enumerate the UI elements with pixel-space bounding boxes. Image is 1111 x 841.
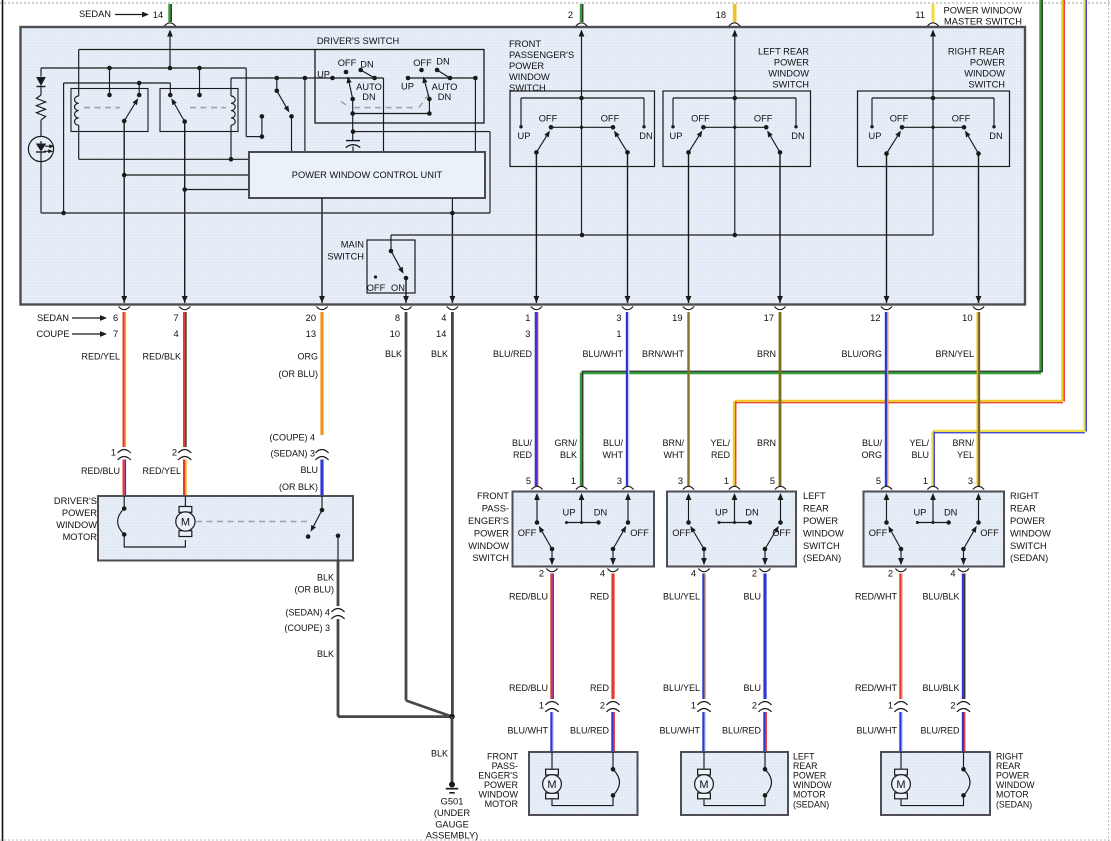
- relay K1 arm: [122, 119, 127, 124]
- svg-text:DRIVER'S SWITCH: DRIVER'S SWITCH: [317, 36, 399, 46]
- switch left arm: [702, 547, 707, 552]
- wire arm common to capacitor: [352, 114, 354, 141]
- svg-text:GRN/: GRN/: [555, 438, 578, 448]
- cluster left arm: [534, 150, 539, 155]
- connector pin 2: [576, 23, 587, 26]
- svg-text:YEL/: YEL/: [710, 438, 730, 448]
- svg-text:PASS-: PASS-: [492, 761, 518, 771]
- cluster box: [663, 91, 811, 167]
- feed rail y235: [391, 234, 933, 236]
- relay K1 mechanical link: [84, 107, 120, 109]
- svg-text:RIGHT REAR: RIGHT REAR: [948, 47, 1005, 57]
- svg-text:OFF: OFF: [539, 114, 558, 124]
- relay K1 contact a: [109, 68, 111, 95]
- svg-text:POWER: POWER: [474, 528, 509, 538]
- svg-text:YEL: YEL: [957, 450, 974, 460]
- svg-text:ORG: ORG: [861, 450, 882, 460]
- relay box K1: [71, 89, 148, 132]
- wire ORG pin20: [320, 312, 323, 435]
- master bottom pin 3: [625, 296, 631, 303]
- svg-text:ENGER'S: ENGER'S: [468, 516, 509, 526]
- svg-text:RIGHT: RIGHT: [1010, 491, 1039, 501]
- svg-text:2: 2: [752, 701, 757, 711]
- svg-text:SEDAN: SEDAN: [37, 313, 69, 323]
- page border right: [1108, 0, 1110, 841]
- svg-text:1: 1: [111, 448, 116, 458]
- drivers switch box: [315, 50, 484, 124]
- motor brush arc: [963, 752, 965, 769]
- svg-text:POWER WINDOW: POWER WINDOW: [944, 6, 1023, 16]
- svg-text:BLU: BLU: [743, 683, 761, 693]
- wire BLK to G501: [451, 717, 454, 783]
- svg-text:LEFT: LEFT: [803, 491, 826, 501]
- svg-text:SWITCH: SWITCH: [472, 553, 509, 563]
- relay K1 coil: [78, 50, 80, 97]
- cluster bar: [703, 126, 766, 128]
- wire x475 to control unit: [474, 78, 476, 152]
- master bottom pin 19: [686, 296, 692, 303]
- drivers switch link bar: [352, 99, 354, 114]
- power window master switch box: [21, 27, 1026, 305]
- wire YEL/BLU loop horizontal: [933, 430, 1085, 432]
- svg-text:7: 7: [113, 329, 118, 339]
- svg-text:RIGHT: RIGHT: [996, 751, 1024, 761]
- svg-text:3: 3: [617, 476, 622, 486]
- switch left arm: [550, 547, 555, 552]
- connector pin 18: [729, 23, 740, 26]
- relay box K2: [160, 89, 238, 132]
- svg-text:RED/BLK: RED/BLK: [142, 352, 181, 362]
- wire GRN loop horizontal: [582, 372, 1042, 374]
- switch top connectors: [683, 486, 694, 489]
- wire x63 drop: [63, 83, 65, 213]
- motor brush arc: [612, 752, 614, 769]
- wire relay1 common to control unit: [124, 174, 249, 176]
- wire RED/WHT switch to motor: [899, 574, 901, 700]
- svg-text:REAR: REAR: [793, 761, 817, 771]
- svg-text:19: 19: [672, 313, 682, 323]
- driver motor link wire: [124, 535, 185, 548]
- wire pin 2 stub (GRN): [580, 4, 582, 22]
- svg-text:MASTER SWITCH: MASTER SWITCH: [944, 17, 1022, 27]
- wire RED/BLK pin7: [183, 312, 185, 447]
- junction rail y78 x305: [303, 76, 308, 81]
- svg-text:DN: DN: [436, 57, 449, 67]
- cluster bar: [902, 126, 964, 128]
- svg-text:OFF: OFF: [367, 283, 386, 293]
- wire pin 4 drop: [451, 213, 453, 303]
- wire GRN loop: right side vertical: [1039, 0, 1041, 373]
- svg-text:18: 18: [716, 10, 726, 20]
- wire BLU/WHT pin3 to FP switch: [626, 312, 628, 486]
- svg-text:(SEDAN): (SEDAN): [793, 799, 829, 809]
- svg-text:POWER: POWER: [996, 771, 1029, 781]
- svg-text:(OR BLU): (OR BLU): [278, 369, 318, 379]
- svg-text:1: 1: [525, 313, 530, 323]
- wire capacitor node to x490: [353, 131, 490, 133]
- wire BLU/RED to motor: [962, 712, 964, 752]
- wire relay1 common to pin 6: [123, 121, 125, 303]
- wire BLU/WHT to motor: [702, 712, 704, 752]
- svg-text:5: 5: [770, 476, 775, 486]
- svg-text:4: 4: [441, 313, 446, 323]
- motor connectors: [545, 702, 558, 706]
- svg-text:RED: RED: [590, 683, 610, 693]
- svg-text:WINDOW: WINDOW: [509, 72, 550, 82]
- cluster right arm: [778, 150, 783, 155]
- svg-text:UP: UP: [518, 131, 531, 141]
- svg-text:AUTO: AUTO: [356, 82, 382, 92]
- svg-text:M: M: [181, 516, 190, 528]
- relay K1 coil bottom wire: [78, 125, 80, 159]
- svg-text:BRN/: BRN/: [662, 438, 684, 448]
- capacitor C1: [346, 140, 360, 142]
- svg-text:(SEDAN): (SEDAN): [803, 553, 841, 563]
- svg-text:4: 4: [950, 569, 955, 579]
- main switch arm: [391, 251, 400, 268]
- svg-text:BLU/YEL: BLU/YEL: [663, 683, 700, 693]
- svg-text:POWER: POWER: [1010, 516, 1045, 526]
- motor link wire: [552, 795, 613, 805]
- svg-text:RED: RED: [513, 450, 533, 460]
- svg-text:20: 20: [306, 313, 316, 323]
- drivers switch mechanical link dashed: [341, 102, 350, 108]
- svg-text:ORG: ORG: [297, 352, 318, 362]
- motor brush arc: [764, 752, 766, 769]
- svg-text:BLU: BLU: [911, 450, 929, 460]
- driver motor brush arc: [123, 496, 125, 509]
- motor M: [900, 752, 902, 769]
- switch outputs: [900, 549, 902, 565]
- wire BLK pin8 diagonal to ground junction: [406, 701, 452, 717]
- wire right cluster rail: [408, 77, 475, 79]
- svg-text:ASSEMBLY): ASSEMBLY): [426, 831, 479, 841]
- svg-text:REAR: REAR: [1010, 504, 1036, 514]
- svg-text:BLU/: BLU/: [862, 438, 883, 448]
- svg-text:3: 3: [525, 329, 530, 339]
- switch S1: [275, 76, 280, 81]
- svg-text:POWER: POWER: [62, 508, 97, 518]
- svg-text:BLK: BLK: [431, 749, 448, 759]
- svg-text:WINDOW: WINDOW: [996, 780, 1035, 790]
- cluster right arm: [625, 150, 630, 155]
- svg-text:5: 5: [876, 476, 881, 486]
- wire RED/BLU switch to motor: [550, 574, 552, 700]
- svg-text:WINDOW: WINDOW: [468, 541, 509, 551]
- svg-text:PASS-: PASS-: [482, 504, 509, 514]
- wire GRN/BLK drop to FP pin1: [580, 373, 582, 487]
- main switch off contact: [374, 275, 377, 278]
- wire YEL/RED drop to LR pin1: [733, 402, 735, 487]
- motor box: [529, 752, 638, 815]
- relay K2 coil: [230, 78, 232, 96]
- svg-text:1: 1: [616, 329, 621, 339]
- cluster riser: [732, 30, 738, 37]
- svg-text:BLU/: BLU/: [603, 438, 624, 448]
- svg-text:WINDOW: WINDOW: [479, 789, 519, 799]
- svg-text:RED/BLU: RED/BLU: [509, 683, 548, 693]
- svg-text:(UNDER: (UNDER: [434, 808, 470, 818]
- svg-text:BLU/RED: BLU/RED: [493, 349, 533, 359]
- cluster outputs: [886, 154, 888, 303]
- svg-text:10: 10: [962, 313, 972, 323]
- svg-text:2: 2: [539, 569, 544, 579]
- switch box: [667, 492, 796, 567]
- svg-text:YEL/: YEL/: [909, 438, 929, 448]
- svg-text:MOTOR: MOTOR: [485, 799, 519, 809]
- connector pin 14: [164, 23, 175, 26]
- junction rail-pin14: [168, 66, 173, 71]
- cluster bar: [551, 126, 613, 128]
- svg-text:BRN/: BRN/: [952, 438, 974, 448]
- svg-text:BRN: BRN: [757, 438, 776, 448]
- wire BLU/RED to motor: [763, 712, 765, 752]
- svg-text:SWITCH: SWITCH: [803, 541, 840, 551]
- junction rail-relay1: [107, 66, 112, 71]
- wire rail y68 drop x246: [245, 68, 247, 137]
- wire rail y68: [41, 67, 246, 69]
- svg-text:14: 14: [436, 329, 446, 339]
- svg-text:OFF: OFF: [518, 528, 537, 538]
- power window control unit box: [249, 152, 485, 198]
- svg-text:BLU/RED: BLU/RED: [570, 726, 610, 736]
- svg-text:WINDOW: WINDOW: [793, 780, 832, 790]
- svg-text:OFF: OFF: [890, 114, 909, 124]
- switch pin arrows top: [686, 493, 692, 500]
- svg-text:SWITCH: SWITCH: [327, 252, 364, 262]
- wire S1 to control unit: [291, 116, 293, 152]
- svg-text:(COUPE) 3: (COUPE) 3: [284, 623, 330, 633]
- wire YEL/BLU drop to RR pin1: [931, 432, 933, 487]
- cluster outputs: [535, 152, 537, 303]
- svg-text:BLK: BLK: [317, 649, 334, 659]
- svg-text:WINDOW: WINDOW: [964, 69, 1005, 79]
- svg-text:COUPE: COUPE: [36, 329, 69, 339]
- svg-text:FRONT: FRONT: [487, 751, 518, 761]
- svg-text:6: 6: [113, 313, 118, 323]
- svg-text:OFF: OFF: [601, 114, 620, 124]
- wire BLK pin8: [405, 312, 408, 701]
- svg-text:POWER: POWER: [793, 771, 826, 781]
- switch outputs: [703, 549, 705, 565]
- master bottom pin 12: [884, 296, 890, 303]
- wire YEL/RED loop horizontal: [735, 400, 1064, 402]
- svg-text:BLU/WHT: BLU/WHT: [857, 726, 898, 736]
- cluster right arm: [976, 151, 981, 156]
- wire BLK(OR BLU) from driver motor: [337, 536, 339, 561]
- wire BRN pin17 to LR switch: [779, 312, 782, 486]
- svg-text:RED/YEL: RED/YEL: [81, 352, 120, 362]
- relay K2 arm: [182, 119, 187, 124]
- svg-text:SWITCH: SWITCH: [968, 80, 1005, 90]
- svg-text:(SEDAN) 4: (SEDAN) 4: [285, 608, 330, 618]
- svg-text:BLK: BLK: [431, 349, 448, 359]
- cluster U wire: [872, 97, 994, 99]
- wire BLK to ground junction: [337, 619, 340, 717]
- page border bottom: [0, 839, 1111, 841]
- svg-text:POWER WINDOW CONTROL UNIT: POWER WINDOW CONTROL UNIT: [292, 170, 443, 180]
- svg-text:LEFT REAR: LEFT REAR: [758, 47, 809, 57]
- svg-text:RED/BLU: RED/BLU: [509, 592, 548, 602]
- svg-text:SWITCH: SWITCH: [1010, 541, 1047, 551]
- svg-text:3: 3: [678, 476, 683, 486]
- LED illumination lamp: [28, 136, 53, 161]
- motor link wire: [901, 795, 964, 805]
- wire contact feed y83: [64, 82, 171, 84]
- wire BLU/RED pin1 to FP switch: [535, 312, 537, 486]
- svg-text:REAR: REAR: [996, 761, 1020, 771]
- main switch contact: [390, 240, 392, 251]
- cluster riser to feed rail FP: [581, 127, 583, 235]
- svg-text:UP: UP: [401, 82, 414, 92]
- svg-text:OFF: OFF: [338, 58, 357, 68]
- wire relay2 common to pin 7: [184, 122, 186, 303]
- svg-text:11: 11: [915, 10, 925, 20]
- svg-text:MOTOR: MOTOR: [63, 532, 98, 542]
- svg-text:(OR BLU): (OR BLU): [294, 585, 334, 595]
- svg-text:GAUGE: GAUGE: [435, 819, 469, 829]
- wire relay2 common to control unit: [185, 189, 249, 191]
- svg-text:OFF: OFF: [630, 528, 649, 538]
- wire BRN/YEL pin10 to RR switch: [978, 312, 980, 486]
- drivers switch right cluster: [406, 76, 411, 81]
- svg-text:WINDOW: WINDOW: [768, 69, 809, 79]
- svg-text:(SEDAN): (SEDAN): [996, 799, 1032, 809]
- svg-text:POWER: POWER: [484, 780, 519, 790]
- switch S2 contact: [260, 134, 265, 139]
- wire RED switch to motor: [611, 574, 614, 700]
- svg-text:2: 2: [600, 701, 605, 711]
- svg-text:BRN/WHT: BRN/WHT: [642, 349, 684, 359]
- switch right arm: [961, 547, 966, 552]
- wire x305 to control unit: [304, 78, 306, 152]
- svg-text:G501: G501: [441, 797, 464, 807]
- svg-text:POWER: POWER: [774, 58, 809, 68]
- svg-text:2: 2: [752, 569, 757, 579]
- svg-text:REAR: REAR: [803, 504, 829, 514]
- wire lamp chain top: [40, 68, 42, 77]
- svg-text:MOTOR: MOTOR: [996, 790, 1029, 800]
- switch pin arrows top: [884, 493, 890, 500]
- page border left: [2, 0, 4, 841]
- switch UP/DN bar: [917, 522, 948, 524]
- svg-text:2: 2: [172, 448, 177, 458]
- diode D1: [36, 77, 46, 86]
- cluster riser: [579, 30, 585, 37]
- wire pin 11 stub (YEL): [931, 4, 934, 22]
- svg-text:(OR BLK): (OR BLK): [279, 482, 318, 492]
- master bottom pin 1: [534, 296, 540, 303]
- svg-text:BLU: BLU: [743, 592, 761, 602]
- driver motor switch: [321, 496, 323, 510]
- svg-text:POWER: POWER: [509, 61, 544, 71]
- svg-text:WHT: WHT: [603, 450, 624, 460]
- svg-text:4: 4: [691, 569, 696, 579]
- wire pin 14 stub (GRN): [168, 4, 170, 22]
- wire coil bottoms y159: [79, 158, 249, 160]
- motor connectors: [697, 702, 710, 706]
- wire rail y78: [231, 77, 384, 79]
- svg-text:PASSENGER'S: PASSENGER'S: [509, 50, 574, 60]
- cluster left arm: [884, 151, 889, 156]
- switch right arm: [763, 547, 768, 552]
- motor connectors: [894, 702, 907, 706]
- svg-text:DRIVER'S: DRIVER'S: [54, 496, 97, 506]
- svg-text:1: 1: [923, 476, 928, 486]
- motor link wire: [704, 795, 765, 805]
- relay K2 coil bottom wire: [230, 125, 232, 159]
- svg-text:OFF: OFF: [413, 58, 432, 68]
- svg-text:DN: DN: [639, 131, 652, 141]
- wire RED/BLU to driver motor: [123, 460, 125, 497]
- svg-text:OFF: OFF: [691, 114, 710, 124]
- svg-text:14: 14: [153, 10, 163, 20]
- svg-text:4: 4: [174, 329, 179, 339]
- svg-text:BLU/ORG: BLU/ORG: [841, 349, 882, 359]
- wire pin 18 stub (YEL): [733, 4, 735, 22]
- connector C2 in RED/BLK: [178, 450, 191, 454]
- svg-text:DN: DN: [438, 92, 451, 102]
- svg-text:BLU/RED: BLU/RED: [920, 726, 960, 736]
- wire RED/YEL pin6: [123, 312, 125, 447]
- svg-text:RED: RED: [711, 450, 731, 460]
- driver motor dashed link: [196, 521, 309, 523]
- switch UP/DN bar: [719, 522, 750, 524]
- svg-text:SWITCH: SWITCH: [772, 80, 809, 90]
- svg-text:BLK: BLK: [385, 349, 402, 359]
- wire lamp to ground rail: [40, 162, 42, 213]
- svg-text:ON: ON: [391, 283, 405, 293]
- svg-text:BLU/: BLU/: [512, 438, 533, 448]
- svg-text:DN: DN: [745, 508, 758, 518]
- driver motor M1: [184, 496, 186, 508]
- svg-text:POWER: POWER: [803, 516, 838, 526]
- svg-text:17: 17: [764, 313, 774, 323]
- svg-text:BLU/WHT: BLU/WHT: [508, 726, 549, 736]
- svg-text:DN: DN: [989, 131, 1002, 141]
- svg-text:(SEDAN): (SEDAN): [1010, 553, 1048, 563]
- wire BRN/WHT pin19 to LR switch: [687, 312, 689, 486]
- master bottom pin 8: [403, 296, 409, 303]
- ground junction: [449, 714, 455, 720]
- wire control unit to ground rail: [451, 198, 453, 213]
- cluster U wire: [673, 97, 796, 99]
- svg-text:3: 3: [616, 313, 621, 323]
- svg-text:4: 4: [600, 569, 605, 579]
- wire BLU/BLK switch to motor: [962, 574, 964, 700]
- svg-text:BLU/WHT: BLU/WHT: [583, 349, 624, 359]
- arrow pin 14: [167, 30, 173, 37]
- wire main switch to pin 8: [405, 278, 407, 303]
- motor M: [703, 752, 705, 769]
- svg-text:1: 1: [724, 476, 729, 486]
- switch top connectors: [531, 486, 542, 489]
- master bottom pin 7: [182, 296, 188, 303]
- master bottom pin 4: [450, 296, 456, 303]
- svg-text:RED/YEL: RED/YEL: [142, 466, 181, 476]
- svg-text:BLU/WHT: BLU/WHT: [660, 726, 701, 736]
- wire BLU/WHT to motor: [899, 712, 901, 752]
- svg-text:UP: UP: [913, 508, 926, 518]
- wire BLU/ORG pin12 to RR switch: [885, 312, 887, 486]
- svg-text:1: 1: [888, 701, 893, 711]
- cluster riser: [930, 30, 936, 37]
- cluster left arm: [686, 150, 691, 155]
- master bottom pin 20: [319, 296, 325, 303]
- svg-text:SWITCH: SWITCH: [509, 83, 546, 93]
- connector C1 in RED/YEL: [118, 450, 131, 454]
- wire BLU/YEL switch to motor: [702, 574, 704, 700]
